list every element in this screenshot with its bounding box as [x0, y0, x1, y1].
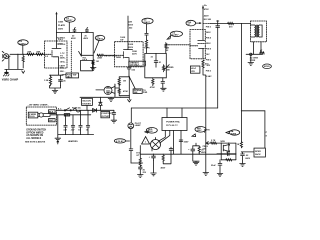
triode V1A cathode	[53, 57, 59, 68]
node dot at R3 top	[23, 54, 24, 55]
svg-text:ALL MODELS: ALL MODELS	[26, 137, 41, 140]
pointer triangle left	[145, 131, 148, 133]
B+ arrow	[202, 5, 204, 8]
input jack J1	[2, 51, 10, 61]
filter cap C10 20uF	[85, 28, 88, 33]
ground	[161, 87, 167, 92]
dashed signal wire to power tube	[166, 44, 190, 46]
decoupling rail wire	[57, 32, 94, 34]
tube label oval trem	[171, 31, 183, 37]
ground	[111, 118, 117, 123]
svg-text:650V: 650V	[148, 131, 153, 133]
tube label oval 6.3V	[114, 139, 125, 143]
node dot	[128, 69, 129, 70]
ground	[55, 138, 61, 141]
pentode plate	[198, 30, 205, 41]
svg-text:LAMP: LAMP	[135, 124, 141, 127]
oval 6V6 pointer	[196, 23, 201, 24]
svg-text:68K: 68K	[28, 51, 32, 53]
power tube 6V6 envelope (dashed)	[190, 30, 205, 59]
output transformer box (dashed)	[251, 21, 267, 42]
cathode wire down	[203, 68, 206, 143]
loop cap	[154, 53, 158, 67]
OT secondary coil	[258, 25, 259, 37]
svg-text:350V: 350V	[206, 43, 211, 45]
svg-text:100K: 100K	[128, 44, 133, 46]
pointer	[226, 131, 229, 133]
svg-text:12AX7: 12AX7	[172, 34, 179, 37]
oval V1 stem	[68, 22, 70, 32]
trem takeoff resistor	[165, 43, 167, 54]
pot wiper arrow	[79, 51, 82, 55]
svg-text:GRID: GRID	[116, 57, 122, 59]
svg-text:470V: 470V	[204, 8, 209, 11]
trem bus vertical	[128, 76, 130, 96]
intensity pot diagonal	[129, 77, 135, 89]
tube label oval V2	[142, 18, 153, 24]
triode V1B grid	[115, 52, 124, 59]
svg-text:AS SHOWN ON: AS SHOWN ON	[26, 134, 43, 137]
low resistor	[226, 159, 232, 161]
node dot	[241, 151, 242, 152]
svg-text:VIBRO CHAMP: VIBRO CHAMP	[2, 79, 19, 82]
node dots	[192, 154, 193, 155]
output cap	[241, 152, 245, 164]
svg-text:220K: 220K	[97, 57, 102, 59]
node dots on B wire	[170, 154, 171, 155]
volume pot feed wire	[80, 33, 82, 57]
feedback resistor	[211, 142, 217, 144]
speaker resistor	[260, 52, 264, 54]
pilot lamp	[128, 123, 134, 129]
hv resistor in drop	[240, 142, 242, 148]
node dot	[93, 55, 94, 56]
svg-text:1M A: 1M A	[82, 59, 87, 62]
AC neutral wire	[56, 114, 90, 116]
transistor-like symbol	[223, 144, 229, 151]
svg-text:NO SIG: NO SIG	[204, 19, 212, 21]
triode V1A plate	[52, 41, 61, 49]
trem cap C	[145, 33, 148, 40]
osc right vertical	[114, 84, 116, 96]
svg-text:19V: 19V	[206, 54, 210, 56]
death cap 1	[64, 115, 67, 135]
osc loop ground stem	[128, 96, 131, 102]
svg-text:SPKR: SPKR	[255, 151, 261, 153]
svg-text:22K: 22K	[128, 22, 132, 24]
svg-text:12AX7: 12AX7	[96, 38, 103, 41]
svg-text:470K: 470K	[123, 90, 128, 93]
resistor R3 1M vertical	[22, 54, 24, 68]
tube label oval V1A	[18, 40, 28, 46]
ground stem	[250, 56, 252, 63]
svg-text:250K..: 250K..	[60, 58, 66, 60]
pot bleed feed	[92, 33, 94, 56]
svg-text:6.3V AC: 6.3V AC	[116, 140, 124, 143]
note box	[190, 66, 200, 73]
wire	[100, 109, 114, 111]
svg-text:--ON VIBRO CHAMP--: --ON VIBRO CHAMP--	[28, 103, 50, 106]
wire input to V1A grid	[10, 53, 45, 55]
svg-text:50K: 50K	[134, 92, 138, 94]
speaker jack tip circle	[250, 53, 252, 55]
OT leads	[251, 25, 263, 37]
svg-text:PIN 3: PIN 3	[206, 27, 212, 29]
osc tube V2 circle	[104, 86, 112, 94]
osc plate forks	[111, 86, 115, 93]
node dot at grid resistor junction	[17, 54, 18, 55]
node dot trem wire	[120, 97, 121, 98]
cap 4	[86, 110, 89, 134]
svg-text:25V: 25V	[143, 172, 147, 174]
svg-text:450V: 450V	[161, 167, 166, 170]
wire drop to ground left	[17, 54, 19, 69]
tube label oval 6V6	[186, 20, 196, 26]
node dot	[128, 76, 129, 77]
filter cap C21	[191, 146, 195, 154]
rectifier output wire	[140, 146, 236, 155]
screen cap	[216, 21, 220, 28]
jack contact circles	[92, 62, 94, 64]
svg-text:FUSE: FUSE	[231, 133, 237, 135]
junction arrow	[206, 142, 210, 145]
cap above wire	[169, 147, 173, 154]
svg-text:360V: 360V	[206, 32, 211, 34]
rectifier tube V4	[151, 138, 161, 152]
svg-text:220V: 220V	[128, 47, 133, 49]
power transformer T1	[162, 118, 187, 131]
oval V2 stem	[146, 24, 148, 34]
svg-text:BLK: BLK	[49, 111, 54, 113]
ground drop	[57, 115, 59, 138]
ground	[90, 66, 96, 70]
long B+ vertical right	[240, 24, 242, 142]
fuse F1	[73, 109, 80, 112]
osc resistor R lower	[118, 89, 120, 94]
bias resistor	[139, 158, 141, 167]
svg-text:CH ONLY: CH ONLY	[130, 65, 140, 67]
plate feed wire to B+	[56, 14, 58, 42]
svg-text:650V: 650V	[197, 130, 202, 132]
svg-text:420V: 420V	[204, 15, 209, 18]
osc resistor R upper	[118, 78, 120, 85]
footswitch jack box	[66, 73, 79, 79]
ground	[138, 166, 144, 178]
diode D1 in wire	[93, 109, 97, 113]
svg-text:1W: 1W	[120, 40, 123, 42]
speaker wire	[246, 53, 262, 55]
filter cap C20	[152, 154, 156, 160]
grid stopper resistor	[97, 54, 103, 56]
outlet cap	[112, 110, 116, 118]
diode D2	[99, 97, 102, 110]
B+ arrow	[55, 12, 57, 15]
svg-text:SPKR: SPKR	[264, 66, 270, 68]
svg-text:100K: 100K	[58, 22, 64, 24]
wire loop to footswitch	[81, 60, 93, 70]
switch SW1	[65, 108, 70, 111]
box stem	[86, 105, 88, 110]
chassis ground	[6, 69, 8, 72]
svg-text:PLATE: PLATE	[58, 24, 66, 27]
triode V1A grid	[45, 51, 53, 58]
node dot	[100, 110, 101, 111]
svg-text:A.C.: A.C.	[58, 107, 63, 110]
svg-text:PIN 5: PIN 5	[206, 60, 212, 62]
tube label oval V1 second	[64, 17, 75, 23]
node dot	[129, 76, 130, 77]
svg-text:TO PIN 6: TO PIN 6	[57, 44, 66, 46]
speed pot	[162, 65, 169, 72]
top joining wire	[193, 143, 199, 146]
interlock block lower	[49, 119, 56, 123]
hazard triangle	[142, 137, 150, 144]
trem resistor	[145, 40, 147, 48]
svg-text:WHT: WHT	[49, 120, 54, 122]
svg-text:PIN 2: PIN 2	[206, 71, 212, 73]
svg-text:12AX7: 12AX7	[144, 21, 151, 24]
pentode cathode	[199, 48, 205, 58]
rail junction dot	[56, 32, 57, 33]
osc side vertical	[115, 84, 119, 96]
rectifier feed left	[159, 131, 166, 142]
svg-text:TO PIN 1: TO PIN 1	[57, 38, 66, 40]
svg-text:25V: 25V	[191, 71, 195, 73]
svg-text:250V: 250V	[58, 29, 64, 31]
tube label oval PT left	[146, 128, 157, 134]
death cap 2	[71, 115, 74, 135]
plug contact	[39, 113, 43, 117]
B+ line to plate	[202, 6, 204, 30]
capacitor C2 cathode bypass	[59, 75, 63, 85]
ground	[240, 164, 246, 167]
svg-text:1M A..: 1M A..	[60, 60, 66, 63]
resistor R1 68K	[27, 53, 34, 55]
heater left vertical	[139, 154, 141, 158]
tube label oval V1B	[95, 35, 105, 40]
coupling cap on cathode line	[127, 67, 131, 76]
intensity value box	[133, 89, 142, 94]
pentode screen grid	[198, 42, 205, 44]
ground	[52, 90, 58, 93]
resistor R2 68K	[36, 53, 43, 55]
vertical joins	[221, 143, 236, 160]
ground	[217, 173, 223, 176]
lamp lower wire	[130, 129, 132, 149]
svg-text:50K...: 50K...	[60, 67, 66, 69]
trem feed wire	[146, 48, 148, 54]
ground arrow	[22, 71, 25, 73]
svg-text:1M: 1M	[123, 80, 126, 82]
cathode ground bus	[50, 85, 61, 90]
polarity arrow	[57, 141, 59, 144]
wire stem from V1A oval to input node	[22, 45, 24, 54]
plug box	[28, 112, 38, 118]
pilot lamp vertical	[130, 108, 132, 122]
ground bus	[58, 134, 94, 136]
OT core	[256, 25, 257, 37]
node dot rail left	[74, 32, 75, 33]
svg-text:220V: 220V	[132, 53, 137, 55]
tube label oval speaker	[263, 64, 272, 69]
lamp cap	[129, 149, 133, 163]
loop bottom resistor	[152, 78, 154, 86]
cap 3	[79, 110, 82, 134]
ground bus	[5, 56, 23, 69]
cathode node wire	[50, 68, 64, 75]
svg-text:1.5K: 1.5K	[44, 80, 49, 82]
ground	[151, 160, 157, 176]
oval 6.3V pointer	[126, 140, 130, 142]
screen resistor	[228, 22, 234, 24]
osc network loop	[119, 77, 129, 96]
choke wire	[163, 154, 171, 164]
lamp box	[101, 111, 114, 117]
filter cap C9 20uF	[73, 28, 76, 33]
plug leads	[38, 114, 57, 117]
svg-text:25K...: 25K...	[60, 71, 66, 73]
OT secondary drop wires	[254, 42, 262, 55]
svg-text:FUSE 2A: FUSE 2A	[72, 106, 81, 109]
svg-text:NFB: NFB	[221, 141, 226, 143]
pentode control grid	[190, 45, 198, 47]
triode V1B cathode	[125, 58, 130, 67]
svg-text:JACK: JACK	[255, 153, 261, 156]
svg-text:JACK: JACK	[67, 76, 73, 79]
bleeder resistor	[198, 146, 200, 153]
svg-text:SILICON: SILICON	[82, 100, 91, 102]
svg-text:117V 60 CY: 117V 60 CY	[166, 125, 178, 127]
primary feed left	[166, 108, 168, 118]
ground	[203, 173, 209, 176]
ground	[248, 63, 254, 66]
tube label oval fuse	[229, 130, 239, 136]
svg-text:600V: 600V	[128, 25, 133, 27]
svg-text:PIN 8: PIN 8	[206, 49, 212, 51]
tube label oval PT right	[195, 127, 206, 133]
loop bottom cap	[161, 78, 165, 87]
AC mains dashed box	[26, 107, 56, 125]
svg-text:HEATERS: HEATERS	[68, 140, 78, 143]
rectifier label box	[82, 98, 93, 105]
svg-text:6.3AC: 6.3AC	[206, 75, 212, 78]
filter resistor 10K	[162, 154, 164, 162]
HT secondary left	[173, 131, 175, 155]
heater wire	[131, 162, 143, 164]
node dot	[241, 23, 242, 24]
long B+ vertical left	[217, 27, 219, 108]
rectifier feed right	[160, 131, 170, 144]
dotted branch at B+ node	[203, 23, 210, 25]
ground	[108, 97, 114, 101]
svg-text:68K: 68K	[37, 51, 41, 53]
ground stem	[205, 143, 207, 172]
svg-text:450V: 450V	[71, 37, 76, 40]
node dot	[241, 110, 242, 111]
tube V1A envelope (dashed)	[45, 41, 68, 68]
pointer triangle right	[192, 134, 196, 137]
phase shift loop	[145, 53, 167, 77]
channel divider dashed wire	[70, 41, 72, 76]
trem ground wire	[80, 96, 129, 98]
svg-text:12AX7: 12AX7	[66, 19, 73, 22]
svg-text:3M: 3M	[167, 69, 170, 71]
svg-text:47uF: 47uF	[191, 67, 197, 70]
AC hot wire	[56, 109, 100, 111]
wire to speaker box	[241, 151, 254, 153]
tube label oval callout stem	[94, 41, 99, 53]
pot body resistor	[92, 55, 94, 66]
wire to V1B grid	[103, 54, 114, 56]
cathode resistor 470	[202, 60, 204, 68]
OT primary coil	[254, 25, 255, 37]
svg-text:OUTLET: OUTLET	[102, 116, 111, 118]
V1B plate wire to B+	[127, 16, 129, 42]
leader dots to jack box	[62, 74, 66, 76]
svg-text:SEE NOTE 4 ABOVE: SEE NOTE 4 ABOVE	[25, 140, 46, 143]
node dot	[217, 23, 218, 24]
oval trem pointer	[167, 35, 171, 39]
wire pot to grid node	[81, 54, 93, 56]
svg-text:325V: 325V	[184, 141, 189, 143]
osc grid wire	[96, 89, 104, 91]
HT secondary right	[180, 131, 182, 155]
svg-text:OPTION WIRED: OPTION WIRED	[26, 132, 43, 134]
mid wire	[217, 153, 236, 155]
svg-text:25uF: 25uF	[211, 165, 217, 167]
long supply wire	[131, 107, 217, 109]
low wire	[221, 159, 236, 161]
resistor R4 cathode 1.5K	[49, 75, 51, 86]
interlock switch body	[64, 114, 69, 117]
vibrato note box (dashed)	[129, 61, 146, 66]
triode V1B plate	[124, 42, 133, 50]
svg-text:GROUND SWITCH: GROUND SWITCH	[26, 130, 46, 132]
svg-text:100K: 100K	[120, 37, 125, 39]
bottom cap to ground	[218, 154, 222, 174]
speaker jack box	[254, 148, 265, 157]
HV wire right	[241, 110, 265, 112]
primary feed right	[181, 108, 183, 118]
HT cap	[179, 140, 183, 142]
svg-text:TO P6: TO P6	[144, 48, 151, 50]
svg-text:1M: 1M	[96, 61, 99, 63]
output drop wire	[264, 111, 266, 148]
ground pair	[193, 152, 199, 165]
interlock block upper	[49, 110, 56, 114]
svg-text:600V: 600V	[245, 158, 250, 160]
tube V1B envelope (dashed)	[115, 42, 144, 67]
mid cap	[226, 152, 229, 156]
screen feed wire	[210, 23, 251, 25]
svg-text:POWER TRA: POWER TRA	[166, 121, 180, 124]
svg-text:450V: 450V	[83, 37, 88, 40]
svg-text:PLUG: PLUG	[29, 116, 35, 118]
svg-text:2.7K: 2.7K	[211, 140, 216, 142]
feedback wire top	[209, 142, 236, 144]
svg-text:PIN 4: PIN 4	[206, 37, 212, 40]
svg-text:470K: 470K	[150, 86, 155, 89]
node dots	[221, 143, 222, 144]
node dot rail right	[86, 32, 87, 33]
